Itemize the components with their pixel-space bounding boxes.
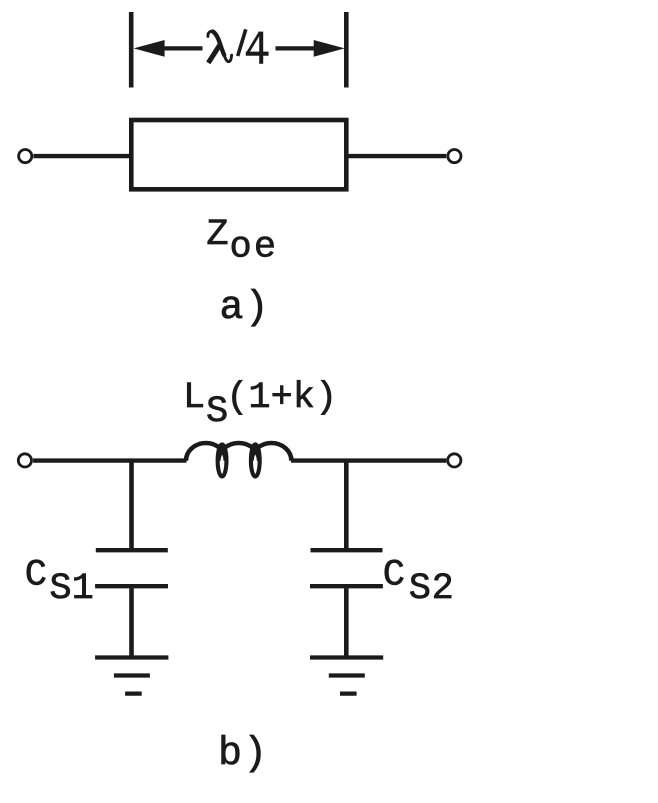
label lambda glyph [208, 31, 232, 63]
svg-text:a): a) [220, 286, 270, 331]
wire cap2 to ground [344, 588, 349, 656]
wire a-left [33, 154, 129, 158]
transmission line box [131, 120, 346, 189]
capacitor C_S2 top plate [311, 548, 383, 552]
svg-text:L: L [183, 377, 205, 419]
capacitor C_S1 top plate [96, 548, 168, 552]
terminal circle a-right [448, 150, 461, 163]
svg-text:(1+k): (1+k) [226, 377, 337, 419]
ground left [95, 658, 168, 694]
svg-text:2: 2 [432, 568, 454, 610]
inductor L coil [186, 443, 291, 477]
svg-text:S: S [206, 391, 228, 433]
terminal circle a-left [19, 150, 32, 163]
dimension arrow right head [314, 40, 345, 57]
dimension tick right [344, 12, 349, 88]
dimension arrow left head [134, 40, 165, 57]
wire cap1 to ground [129, 588, 134, 656]
svg-text:b): b) [218, 732, 268, 777]
ground right [310, 658, 383, 694]
terminal circle b-right [448, 454, 461, 467]
dimension arrow left shaft [164, 46, 203, 50]
svg-text:S: S [409, 568, 431, 610]
node stub left [129, 461, 134, 548]
capacitor C_S1 bottom plate [95, 584, 168, 588]
capacitor C_S2 bottom plate [310, 584, 383, 588]
wire a-right [349, 154, 447, 158]
svg-text:Z: Z [206, 214, 228, 256]
wire b-right [291, 458, 446, 462]
terminal circle b-left [18, 454, 31, 467]
svg-text:oe: oe [230, 226, 279, 268]
dimension arrow right shaft [276, 46, 315, 50]
node stub right [344, 461, 349, 548]
label slash glyph [238, 29, 246, 56]
svg-text:S1: S1 [49, 568, 93, 610]
dimension tick left [129, 12, 134, 88]
svg-text:C: C [25, 555, 47, 597]
svg-text:C: C [383, 555, 405, 597]
wire b-left [33, 458, 186, 462]
label digit 4 glyph [246, 32, 269, 64]
